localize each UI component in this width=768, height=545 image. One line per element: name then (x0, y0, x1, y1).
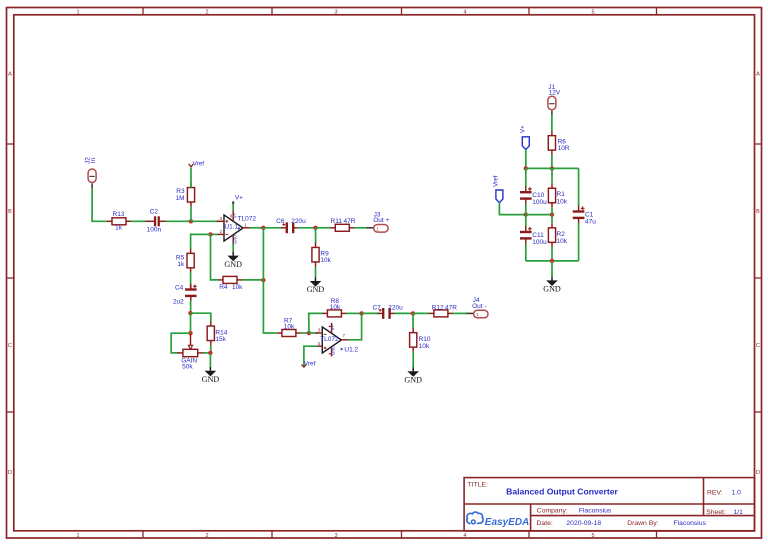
svg-text:47R: 47R (445, 304, 457, 311)
svg-text:Balanced Output Converter: Balanced Output Converter (506, 487, 618, 497)
label U1.2 (341, 346, 359, 353)
svg-text:U1.2: U1.2 (344, 346, 358, 353)
svg-text:R1: R1 (557, 191, 566, 198)
svg-text:R2: R2 (557, 231, 566, 238)
svg-text:100u: 100u (532, 239, 547, 246)
svg-text:V+: V+ (520, 125, 527, 133)
svg-text:D: D (756, 470, 760, 476)
svg-text:2u2: 2u2 (173, 298, 184, 305)
svg-text:10k: 10k (330, 304, 341, 311)
title block (464, 478, 754, 531)
svg-text:A: A (756, 72, 760, 78)
node K junction (411, 311, 415, 315)
label V+ (flag) (520, 125, 527, 133)
svg-text:C: C (8, 343, 12, 349)
wire R1 to node S (551, 207, 553, 214)
wire bottom rail (526, 260, 579, 262)
wire node H to R7 (263, 280, 276, 333)
wire R7 to node I (301, 332, 309, 334)
svg-text:A: A (8, 72, 12, 78)
svg-text:100u: 100u (532, 199, 547, 206)
resistor R11 (330, 218, 355, 231)
svg-text:47u: 47u (585, 219, 596, 226)
wire node T to ground (551, 261, 553, 277)
U1.1 pin 3 (+) stub (217, 216, 229, 223)
svg-text:1M: 1M (176, 195, 185, 202)
svg-text:10k: 10k (232, 284, 243, 291)
resistor R9 (312, 243, 332, 267)
wire node K to R10 (412, 313, 414, 328)
svg-text:2: 2 (205, 9, 208, 15)
label J2/In (rotated) (85, 157, 97, 164)
svg-text:V+: V+ (232, 212, 237, 218)
resistor R5 (176, 249, 194, 273)
capacitor C7 (372, 304, 403, 319)
node H junction (261, 278, 265, 282)
svg-text:10k: 10k (557, 238, 568, 245)
svg-text:10R: 10R (558, 145, 570, 152)
node I junction (307, 331, 311, 335)
node F junction (188, 331, 192, 335)
ground (R9) (307, 277, 325, 294)
svg-text:1k: 1k (177, 261, 185, 268)
wire R10 to ground (412, 352, 414, 368)
U1.2 top power stub (329, 323, 336, 333)
svg-text:B: B (756, 209, 760, 215)
svg-text:220u: 220u (388, 304, 403, 311)
svg-text:Flaconsius: Flaconsius (579, 508, 612, 515)
wire U1.1 out to node B (250, 227, 264, 229)
svg-text:D: D (8, 470, 12, 476)
op-amp U1.1 TL072 (224, 215, 243, 241)
svg-text:10k: 10k (320, 257, 331, 264)
label J1/12V (548, 84, 561, 97)
svg-text:TL072: TL072 (320, 336, 339, 343)
wire R3 to node A (190, 207, 192, 222)
U1.1 pin 4 GND stub (232, 235, 237, 244)
svg-text:220u: 220u (291, 218, 306, 225)
pin 1 stub of J2 (91, 183, 93, 188)
svg-text:Date:: Date: (537, 520, 553, 527)
wire R13 to C2 (131, 220, 146, 222)
svg-text:U1.1: U1.1 (224, 224, 238, 231)
wire node E to node F (190, 313, 192, 333)
svg-text:B: B (8, 209, 12, 215)
svg-text:2: 2 (205, 533, 208, 539)
svg-text:5: 5 (591, 9, 594, 15)
wire U1.2 pin5 to Vref port (304, 346, 317, 367)
svg-text:50k: 50k (182, 363, 193, 370)
U1.2 pin 6 (-) stub (316, 328, 327, 335)
node Q junction (524, 166, 528, 170)
wire mid rail (526, 214, 552, 216)
ground (U1.1 pin4) (224, 252, 242, 269)
svg-text:V+: V+ (235, 194, 243, 201)
svg-text:1: 1 (76, 9, 79, 15)
wire C2 to node A (166, 220, 191, 222)
wire Vref flag to node R (499, 203, 525, 215)
svg-text:1.0: 1.0 (732, 490, 742, 497)
node J junction (359, 311, 363, 315)
wire node C to R11 (316, 227, 331, 229)
wire R6 to node P (551, 155, 553, 169)
capacitor C1 (573, 206, 596, 226)
connector J1 (12V) (548, 96, 556, 109)
net label V+ (U1.1) (232, 194, 243, 203)
resistor R14 (207, 321, 228, 345)
svg-text:Out +: Out + (373, 217, 389, 224)
svg-text:5: 5 (591, 533, 594, 539)
wire R2 to node T (551, 247, 553, 261)
wire C10 to node R (525, 204, 527, 215)
wire R5 to C4 (190, 272, 192, 288)
label Vref (flag) (492, 175, 499, 187)
wire top rail (526, 167, 579, 169)
wire node K to R12 (413, 312, 430, 314)
svg-text:3: 3 (334, 9, 337, 15)
label J4/Out- (472, 297, 486, 310)
capacitor C11 (520, 226, 547, 246)
wire R4 to node H (242, 279, 263, 281)
wire R11 to J3 (354, 227, 368, 229)
node T junction (550, 259, 554, 263)
svg-text:3: 3 (334, 533, 337, 539)
svg-text:GND: GND (543, 285, 561, 294)
wire node G to ground (209, 353, 211, 367)
wire node B to C6 (263, 227, 282, 229)
svg-text:GND: GND (232, 235, 237, 244)
EasyEDA logo (467, 512, 529, 528)
svg-text:12V: 12V (549, 89, 561, 96)
wire C11 to bottom rail (525, 244, 527, 261)
svg-text:R11: R11 (331, 218, 343, 225)
node A junction (189, 219, 193, 223)
svg-text:In: In (90, 157, 97, 163)
connector J3 (Out +) (374, 225, 388, 233)
node D junction (208, 232, 212, 236)
svg-text:GND: GND (202, 375, 220, 384)
wire node J to C7 (362, 312, 380, 314)
wire node P to R1 (551, 168, 553, 183)
svg-text:C4: C4 (175, 284, 184, 291)
resistor R2 (548, 223, 567, 247)
svg-text:Company:: Company: (537, 508, 568, 515)
wire R3 to Vref port (190, 168, 192, 188)
svg-text:1k: 1k (115, 225, 123, 232)
wire node I to U1.2 pin6 (309, 332, 318, 334)
svg-text:10k: 10k (284, 324, 295, 331)
resistor R10 (410, 328, 431, 352)
U1.2 pin 7 output stub (341, 333, 349, 340)
wire R8 to node J (346, 312, 362, 314)
svg-text:C2: C2 (150, 208, 159, 215)
connector J2 (In) (88, 169, 96, 182)
svg-text:Vref: Vref (193, 161, 205, 168)
svg-text:10k: 10k (419, 343, 430, 350)
ground (GAIN) (202, 367, 220, 384)
wire U1.1 pin4 to ground (232, 244, 234, 252)
net flag V+ (522, 137, 529, 150)
wire C4 to node E (190, 301, 192, 313)
wire node C to R9 (315, 228, 317, 244)
svg-text:47R: 47R (344, 218, 356, 225)
svg-text:EasyEDA: EasyEDA (485, 517, 529, 528)
resistor R6 (548, 131, 570, 155)
label J3/Out+ (373, 211, 389, 224)
wire node E to R14 (191, 313, 211, 322)
wire node D to R5 (191, 234, 211, 249)
wire node D to R4 (211, 234, 219, 280)
wire C7 to node K (394, 312, 413, 314)
node G junction (208, 351, 212, 355)
wire node S to R2 (551, 215, 553, 224)
resistor R13 (107, 211, 131, 231)
pin stub of J4 (466, 312, 473, 314)
capacitor C4 (173, 284, 197, 306)
wire J2 to R13 (92, 188, 107, 221)
resistor R7 (277, 317, 301, 336)
potentiometer GAIN (50k) (177, 335, 203, 371)
wire node B to node H (262, 228, 264, 280)
svg-text:100n: 100n (147, 227, 162, 234)
svg-text:GND: GND (307, 285, 325, 294)
svg-text:C6: C6 (276, 218, 285, 225)
node S junction (550, 212, 554, 216)
wire node A to U1.1 pin3 (191, 220, 219, 222)
wire GAIN to node G (203, 352, 211, 354)
svg-text:R4: R4 (219, 284, 228, 291)
svg-text:10k: 10k (557, 198, 568, 205)
svg-text:V+: V+ (331, 325, 336, 331)
svg-text:Vref: Vref (304, 361, 316, 368)
resistor R4 (218, 276, 243, 291)
wire node F to GAIN pot (171, 333, 190, 353)
node P junction (550, 166, 554, 170)
wire top rail to C1 (578, 168, 580, 206)
node C junction (313, 226, 317, 230)
capacitor C2 (146, 208, 169, 233)
connector J4 (Out -) (474, 310, 488, 318)
svg-text:Out -: Out - (472, 303, 486, 310)
resistor R12 (429, 304, 457, 317)
svg-text:TL072: TL072 (238, 215, 257, 222)
svg-text:GND: GND (404, 375, 422, 384)
U1.1 pin 1 output stub (243, 222, 251, 228)
U1.2 bottom power stub (329, 346, 336, 357)
wire R9 to ground (315, 267, 317, 278)
label U1.1 (224, 224, 240, 231)
wire C1 to bottom rail (578, 223, 580, 261)
U1.2 pin 5 (+) stub (316, 341, 327, 349)
svg-text:4: 4 (463, 533, 466, 539)
node R junction (524, 212, 528, 216)
label TL072 (U1.1) (238, 215, 257, 222)
net port Vref (U1.2) (302, 361, 316, 368)
U1.1 pin 2 (-) stub (217, 229, 229, 234)
wire U1.1 pin8 to V+ flag (232, 203, 234, 210)
net flag Vref (496, 190, 503, 203)
svg-text:Drawn By:: Drawn By: (627, 520, 658, 527)
wire C6 to node C (298, 227, 316, 229)
wire J1 to R6 (551, 115, 553, 132)
wire R14 to node G (210, 345, 212, 353)
node B junction (261, 226, 265, 230)
svg-text:Flaconsius: Flaconsius (674, 520, 707, 527)
ground (power) (543, 277, 561, 294)
svg-text:GND: GND (224, 260, 242, 269)
node E junction (188, 311, 192, 315)
wire node R to C11 (525, 215, 527, 228)
wire R12 to J4 (453, 312, 468, 314)
wire U1.2 out to node J (349, 313, 362, 339)
svg-text:REV:: REV: (707, 490, 723, 497)
svg-text:R13: R13 (113, 211, 125, 218)
capacitor C10 (520, 186, 547, 206)
svg-text:1/1: 1/1 (734, 509, 744, 516)
capacitor C6 (276, 218, 306, 233)
pin stub of J3 (367, 227, 374, 229)
resistor R1 (548, 184, 567, 208)
svg-text:Vref: Vref (492, 175, 499, 187)
U1.1 pin 8 V+ stub (230, 210, 238, 222)
svg-text:C: C (756, 343, 760, 349)
pin 1 stub of J1 (551, 111, 553, 115)
wire node Q to C10 (525, 168, 527, 187)
net port Vref (top) (189, 161, 205, 168)
svg-text:C7: C7 (372, 304, 381, 311)
wire V+ flag to node Q (525, 150, 527, 169)
svg-text:4: 4 (463, 9, 466, 15)
resistor R8 (322, 298, 346, 317)
svg-text:R12: R12 (432, 304, 444, 311)
ground (R10) (404, 367, 422, 384)
label TL072 (U1.2) (320, 336, 339, 343)
wire node D to U1.1 pin2 (210, 233, 217, 235)
op-amp U1.2 TL072 (322, 327, 341, 353)
svg-text:Sheet:: Sheet: (706, 509, 726, 516)
svg-text:GND: GND (331, 346, 336, 355)
svg-text:TITLE:: TITLE: (468, 481, 489, 488)
svg-text:15k: 15k (215, 336, 226, 343)
resistor R3 (176, 183, 195, 207)
wire node I to R8 (309, 313, 323, 333)
svg-text:1: 1 (76, 533, 79, 539)
svg-text:2020-09-18: 2020-09-18 (566, 520, 601, 527)
